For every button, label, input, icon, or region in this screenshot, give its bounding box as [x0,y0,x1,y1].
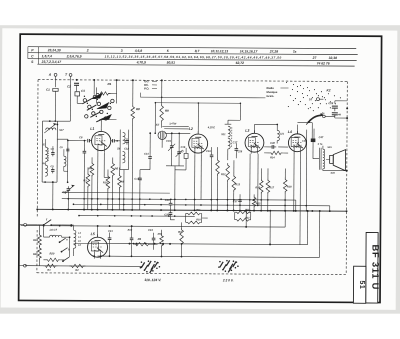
svg-text:R10: R10 [196,218,201,221]
svg-text:Radio: Radio [266,86,274,90]
switch contact c [63,257,69,261]
svg-text:L2: L2 [189,127,193,131]
selector 220V [220,262,223,268]
wire [239,103,241,120]
svg-text:R17: R17 [269,186,274,189]
svg-text:R1: R1 [107,82,111,86]
wire bus y205 [73,204,329,206]
coil S13 [277,130,279,140]
svg-text:C30: C30 [270,141,275,145]
svg-text:A: A [48,73,52,77]
heater wires 3,4TW [162,125,188,127]
svg-text:C16: C16 [181,146,186,149]
wire [296,125,298,134]
title box BF 311 U [366,232,378,303]
wire [154,103,156,133]
svg-text:Musique: Musique [266,90,277,94]
wire [39,225,41,228]
svg-text:3,4TW: 3,4TW [169,122,177,125]
IF transformer S11 S12 [225,123,232,125]
resistor R17 [266,178,270,194]
svg-text:C26: C26 [238,150,243,153]
capacitor C16 [178,149,180,151]
svg-text:R6: R6 [114,166,118,170]
wire [69,83,71,121]
resistor R21 [38,246,42,260]
svg-text:L1: L1 [90,127,94,131]
svg-text:10,11,12,13: 10,11,12,13 [211,49,229,53]
switch contact b [62,248,68,252]
wire bus y216 [79,215,195,218]
junction dots y244 [133,243,135,245]
svg-text:50,51: 50,51 [167,61,176,65]
junction dots mid buses [73,203,75,205]
svg-text:S15: S15 [327,146,332,149]
svg-text:R12: R12 [221,173,226,176]
svg-text:R11: R11 [196,209,201,212]
svg-text:2 2 0 V.: 2 2 0 V. [222,278,234,282]
svg-text:C21: C21 [280,132,285,135]
svg-text:7a: 7a [293,50,297,54]
svg-text:23,7,2,3,4,17: 23,7,2,3,4,17 [41,60,62,64]
svg-text:L6 C7: L6 C7 [50,228,58,232]
svg-text:S7: S7 [156,123,160,127]
wire bus y244 [74,243,308,244]
wire [307,125,313,127]
wire [140,96,265,99]
wire [100,119,102,128]
capacitor C15 [171,143,173,145]
node [346,107,348,109]
wire [165,132,190,134]
wire [197,103,199,134]
svg-text:S11: S11 [221,133,226,136]
svg-text:C28: C28 [328,101,333,105]
capacitor C10 [111,140,113,142]
svg-text:R20: R20 [49,252,54,256]
resistor R18 [283,177,287,193]
resistor R16 [259,178,263,194]
tap dots on heater line [129,243,131,245]
resistor R19 [38,233,42,247]
wire [305,130,307,211]
svg-text:C19: C19 [206,150,211,153]
svg-text:S6: S6 [117,147,121,151]
junction dots y216 [78,215,80,217]
svg-text:3: 3 [121,49,123,53]
svg-text:5: 5 [167,49,169,53]
svg-text:4,25 E: 4,25 E [207,126,216,129]
wire bus y226 [21,226,285,228]
svg-text:C41: C41 [108,230,113,233]
oscillator coil S6 C12 [119,130,121,170]
wire bus y266 [25,265,142,268]
wire [108,92,116,94]
svg-text:R13: R13 [235,183,240,186]
svg-text:C14: C14 [144,153,149,156]
wire [245,211,247,227]
svg-text:L3: L3 [245,129,249,133]
svg-text:S16: S16 [330,172,335,175]
svg-text:51: 51 [358,280,365,289]
wire bus y256 [97,256,319,257]
chassis dashed outline [38,80,347,82]
svg-text:4,6,8: 4,6,8 [134,49,143,53]
svg-text:C31: C31 [302,140,307,143]
svg-text:K2: K2 [326,88,330,92]
wire [97,226,99,237]
svg-text:R8: R8 [136,107,140,111]
svg-text:5 Ta: 5 Ta [318,143,323,146]
svg-text:S17: S17 [59,129,64,132]
svg-text:C24: C24 [165,198,170,202]
junction dots y226 [43,225,45,227]
svg-text:R14: R14 [270,156,275,159]
svg-text:4,70,9: 4,70,9 [136,60,146,64]
switch K2 arc [308,115,322,123]
capacitor C19 [211,153,213,155]
svg-text:I: I [46,217,47,221]
wire [110,225,132,227]
wire bus y193 [62,191,170,194]
svg-text:R18: R18 [287,186,292,189]
svg-text:C17: C17 [233,141,238,144]
svg-text:74 62 76: 74 62 76 [317,61,330,65]
antenna coil unit S2 S4 [41,121,43,182]
terminal mains a [24,223,27,226]
resistor R14 [269,151,283,154]
capacitor C8b [83,149,85,151]
capacitor C37 [239,197,241,199]
svg-text:R9: R9 [165,109,169,113]
svg-text:110..124 V.: 110..124 V. [144,278,161,282]
svg-text:C15: C15 [166,140,171,143]
svg-text:27,28: 27,28 [269,50,279,54]
wire bus y199 [62,199,296,200]
svg-text:C12: C12 [124,148,129,151]
capacitor C26 [235,146,237,148]
wire [323,98,334,100]
page number box 51 [353,266,366,303]
resistor R11a [216,158,220,176]
svg-text:62,72: 62,72 [236,61,245,65]
svg-text:27: 27 [312,56,317,60]
svg-text:R16: R16 [255,186,260,189]
wire [52,182,54,209]
selector 110..124V [141,262,144,268]
svg-text:C1: C1 [46,88,50,92]
bus junction dots [52,208,54,210]
svg-text:C3: C3 [81,89,85,93]
svg-text:C37: C37 [233,200,238,203]
svg-text:R5: R5 [138,237,142,241]
svg-text:L4: L4 [288,130,292,134]
svg-text:14,15,16,17: 14,15,16,17 [240,49,258,53]
node on chassis line [76,79,78,81]
switch K3 wave-band selector [83,99,86,102]
wire [68,237,70,257]
wire [254,124,256,133]
svg-text:10: 10 [309,97,313,101]
switch contact a [60,238,66,242]
resistor R13 [232,174,236,192]
svg-text:8,7: 8,7 [195,49,200,53]
alignment table [28,47,356,49]
heater winding S8 [74,230,76,248]
svg-text:2,5,6,76,9: 2,5,6,76,9 [66,54,82,58]
svg-text:2: 2 [86,49,89,53]
resistor R12 [226,163,230,182]
svg-text:23,24,30: 23,24,30 [47,48,61,52]
svg-text:BF 311 U: BF 311 U [370,245,380,291]
svg-text:P.O.: P.O. [144,86,149,90]
terminal mains b [24,264,27,267]
svg-text:1,5,7,4: 1,5,7,4 [42,54,52,58]
svg-text:C44: C44 [148,229,153,232]
svg-text:32,38: 32,38 [329,56,338,60]
svg-text:Gram.: Gram. [266,94,274,98]
svg-text:C47: C47 [319,136,324,139]
resistor R22 [252,195,256,208]
svg-text:R19: R19 [33,239,38,242]
junction dots y256 [109,255,111,257]
capacitor C29 [332,112,338,114]
svg-text:R21: R21 [33,253,38,256]
wire main bus y210 [37,209,346,211]
svg-text:R7: R7 [178,230,182,234]
